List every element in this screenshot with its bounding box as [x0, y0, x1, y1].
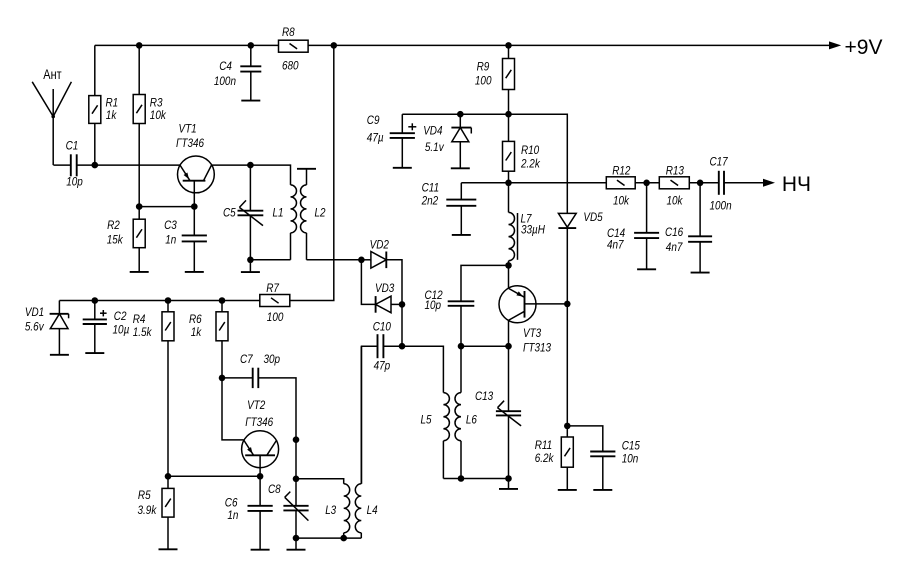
svg-text:C8: C8	[268, 482, 281, 496]
svg-text:4n7: 4n7	[607, 237, 624, 251]
node VD3 right	[399, 301, 406, 308]
svg-text:R12: R12	[612, 163, 630, 177]
node C10 right	[399, 343, 406, 350]
svg-text:C16: C16	[665, 225, 683, 239]
node VT1 collector / C5 / L1	[247, 162, 254, 169]
diode VD5	[558, 210, 602, 304]
resistor R4	[133, 301, 174, 477]
ground VD1	[50, 354, 69, 356]
svg-text:5.1v: 5.1v	[425, 140, 444, 154]
svg-text:2.2k: 2.2k	[520, 157, 540, 171]
svg-text:R8: R8	[282, 25, 295, 39]
inductor L5	[421, 393, 462, 479]
node R4 top	[165, 297, 172, 304]
ground C5/L1	[241, 260, 260, 272]
zener VD1	[25, 301, 69, 355]
svg-text:VT3: VT3	[523, 326, 541, 340]
resistor R1	[89, 45, 118, 165]
antenna Ант	[32, 67, 71, 165]
ground C9	[393, 167, 412, 169]
capacitor C16	[665, 183, 712, 273]
svg-text:VT1: VT1	[179, 122, 197, 136]
capacitor C2 electrolytic	[83, 301, 130, 354]
svg-text:VD2: VD2	[370, 238, 389, 252]
transistor VT3	[499, 265, 567, 354]
node VT2 collector / C7 / C8	[293, 436, 300, 443]
svg-text:R11: R11	[535, 438, 553, 452]
node VT1 base / C3	[191, 203, 198, 210]
wire VD4 rail	[402, 113, 508, 115]
node R13/C16	[689, 180, 719, 187]
wire +9V power rail	[95, 44, 765, 46]
node VD4 top	[457, 111, 464, 118]
node VT2 base / C6	[257, 473, 264, 480]
svg-text:100: 100	[475, 74, 492, 88]
wire C12 to VT3 collector node	[461, 345, 509, 347]
resistor R7	[260, 281, 290, 324]
resistor R11	[535, 426, 574, 490]
resistor R3	[133, 45, 166, 206]
capacitor C6	[225, 476, 273, 549]
capacitor C5 variable	[223, 165, 263, 260]
junction C4 top	[248, 42, 255, 49]
svg-text:VT2: VT2	[247, 398, 265, 412]
svg-text:ГТ313: ГТ313	[523, 341, 551, 355]
wire 5.6v rail	[59, 300, 259, 302]
wire VT1 collector to L1	[212, 164, 251, 166]
svg-text:C1: C1	[66, 139, 79, 153]
svg-text:ГТ346: ГТ346	[176, 136, 204, 150]
svg-text:C15: C15	[622, 439, 640, 453]
capacitor C17	[710, 155, 732, 213]
zener VD4	[423, 114, 471, 168]
ground C8/L3/L4	[287, 538, 306, 550]
node C13 bottom ground	[505, 475, 512, 482]
svg-text:10µ: 10µ	[113, 323, 130, 337]
svg-text:10k: 10k	[150, 108, 167, 122]
svg-text:Ант: Ант	[43, 67, 61, 82]
capacitor C3	[164, 207, 207, 272]
node VT3 base / VD5 / R11	[564, 301, 571, 308]
capacitor C7	[222, 352, 296, 440]
svg-text:100n: 100n	[214, 74, 236, 88]
svg-text:10k: 10k	[613, 194, 630, 208]
junction R8 right / R7 feed	[331, 42, 338, 49]
node VT3 collector / C13	[505, 343, 512, 350]
inductor L1	[250, 165, 296, 260]
node L3 bottom	[296, 535, 361, 542]
wire L2 to VD2 node	[307, 259, 362, 261]
svg-text:VD3: VD3	[375, 281, 394, 295]
diode VD3	[361, 260, 402, 313]
wire R7 right to +9V rail	[290, 45, 334, 300]
svg-text:C4: C4	[219, 59, 232, 73]
svg-text:C3: C3	[164, 218, 177, 232]
node R6 top	[219, 297, 226, 304]
wire C10 node to L5	[402, 346, 443, 392]
capacitor C14	[607, 183, 659, 269]
svg-text:15k: 15k	[107, 233, 124, 247]
svg-text:L6: L6	[466, 413, 477, 427]
inductor L2	[297, 169, 326, 260]
svg-text:1n: 1n	[227, 508, 238, 522]
resistor R2	[107, 207, 146, 272]
svg-text:47µ: 47µ	[367, 131, 384, 145]
svg-text:ГТ346: ГТ346	[245, 415, 273, 429]
svg-text:C2: C2	[114, 309, 127, 323]
svg-text:5.6v: 5.6v	[25, 320, 44, 334]
svg-text:R5: R5	[138, 488, 151, 502]
node R10 bottom	[505, 180, 512, 187]
junction R3 top	[136, 42, 143, 49]
wire VD5 node to R11	[566, 304, 568, 426]
transistor VT2	[242, 398, 279, 476]
node C8 bottom / L3 L4 ground	[293, 535, 300, 542]
ground C14	[637, 268, 656, 270]
ground C3	[185, 271, 204, 273]
svg-text:1n: 1n	[165, 233, 176, 247]
svg-text:C5: C5	[223, 206, 236, 220]
svg-text:1.5k: 1.5k	[133, 325, 152, 339]
inductor L3	[296, 479, 350, 538]
svg-text:VD4: VD4	[423, 124, 442, 138]
capacitor C15	[567, 426, 640, 490]
ground C2	[85, 352, 104, 354]
node R6 bottom / C7	[219, 375, 226, 382]
wire C1 to node	[77, 164, 95, 166]
node L6 bottom	[458, 475, 465, 482]
wire base node to VT1	[95, 164, 180, 166]
svg-text:C17: C17	[710, 155, 729, 169]
capacitor C12	[425, 288, 475, 346]
capacitor C1	[66, 139, 83, 189]
node C5 bottom / L1 / ground	[247, 257, 254, 264]
ground tank	[499, 479, 518, 489]
svg-text:L1: L1	[273, 206, 284, 220]
ground R11	[558, 489, 577, 491]
svg-text:100: 100	[267, 310, 284, 324]
svg-text:3.9k: 3.9k	[138, 503, 157, 517]
svg-text:33µH: 33µH	[521, 223, 545, 237]
resistor R10	[503, 114, 541, 183]
resistor R6	[189, 301, 228, 378]
node R11 top / C15	[564, 423, 571, 430]
wire antenna to C1	[53, 164, 70, 166]
svg-text:R4: R4	[133, 312, 146, 326]
svg-text:L2: L2	[315, 206, 326, 220]
svg-text:1k: 1k	[106, 108, 117, 122]
svg-text:L4: L4	[367, 503, 378, 517]
capacitor C13 variable	[475, 346, 521, 478]
node C1/R1/VT1 junction	[92, 162, 99, 169]
svg-text:C9: C9	[367, 113, 380, 127]
node R2/R3/VT1 base wire	[136, 203, 194, 210]
svg-text:VD5: VD5	[583, 210, 602, 224]
svg-text:2n2: 2n2	[421, 193, 438, 207]
resistor R5	[138, 476, 175, 549]
resistor R9	[475, 45, 515, 114]
resistor R12	[606, 163, 635, 207]
resistor R8	[279, 25, 309, 73]
ground R5	[159, 548, 178, 550]
wire VD3 node down	[401, 304, 403, 346]
node +9V terminal	[765, 36, 883, 59]
svg-text:R7: R7	[266, 281, 280, 295]
junction R9 top	[505, 42, 512, 49]
node L7 bottom / C12 wire	[505, 262, 512, 269]
svg-text:R2: R2	[107, 218, 120, 232]
capacitor C9 electrolytic	[367, 113, 417, 168]
svg-text:680: 680	[282, 59, 299, 73]
ground C16	[691, 272, 710, 274]
inductor L6	[455, 346, 477, 478]
svg-text:1k: 1k	[191, 325, 202, 339]
resistor R13	[659, 163, 689, 207]
svg-text:VD1: VD1	[25, 305, 44, 319]
svg-text:47p: 47p	[374, 359, 391, 373]
svg-text:10k: 10k	[667, 194, 684, 208]
svg-text:10p: 10p	[66, 175, 83, 189]
svg-text:10p: 10p	[425, 298, 442, 312]
node НЧ output terminal	[724, 173, 811, 196]
ground C6	[251, 549, 270, 551]
wire L7 to C12	[461, 265, 509, 301]
wire L6 bottom to C13 ground	[461, 478, 509, 480]
node C2 top	[92, 297, 99, 304]
wire AF line left segment	[461, 182, 606, 184]
capacitor C11	[421, 181, 477, 235]
svg-text:30p: 30p	[264, 352, 281, 366]
svg-text:C10: C10	[373, 320, 391, 334]
wire R5 to VT2 base	[168, 475, 260, 477]
svg-text:НЧ: НЧ	[782, 173, 811, 196]
svg-text:C13: C13	[475, 389, 493, 403]
node R9 bottom	[505, 111, 512, 118]
capacitor C4	[214, 45, 261, 100]
ground R2	[130, 271, 149, 273]
svg-text:R6: R6	[189, 312, 202, 326]
ground VD4	[451, 167, 470, 169]
svg-text:10n: 10n	[622, 452, 639, 466]
node C12 bottom / L6 top	[458, 343, 465, 350]
node R12/C14	[635, 180, 659, 187]
inductor L7	[509, 183, 545, 266]
wire R9 to VD5 top	[509, 114, 568, 213]
capacitor C10	[362, 320, 403, 484]
svg-text:R10: R10	[521, 143, 539, 157]
svg-text:6.2k: 6.2k	[535, 451, 554, 465]
diode VD2	[361, 238, 402, 305]
node L2 / VD2 anode	[358, 257, 365, 264]
svg-text:R9: R9	[477, 59, 490, 73]
svg-text:4n7: 4n7	[666, 240, 683, 254]
wire R6 to VT2 emitter	[222, 378, 244, 440]
svg-text:R13: R13	[666, 163, 684, 177]
svg-text:+9V: +9V	[845, 36, 883, 59]
node R4/R5 junction	[165, 473, 172, 480]
node C8 / L3 top wire	[293, 476, 300, 483]
svg-text:100n: 100n	[710, 199, 732, 213]
ground C4	[241, 100, 260, 102]
capacitor C8 variable	[268, 440, 309, 538]
ground C11	[452, 234, 471, 236]
svg-text:L5: L5	[421, 413, 432, 427]
svg-text:C7: C7	[240, 352, 254, 366]
transistor VT1	[176, 122, 214, 207]
svg-text:L3: L3	[325, 503, 336, 517]
ground C15	[593, 489, 612, 491]
inductor L4	[355, 346, 377, 538]
